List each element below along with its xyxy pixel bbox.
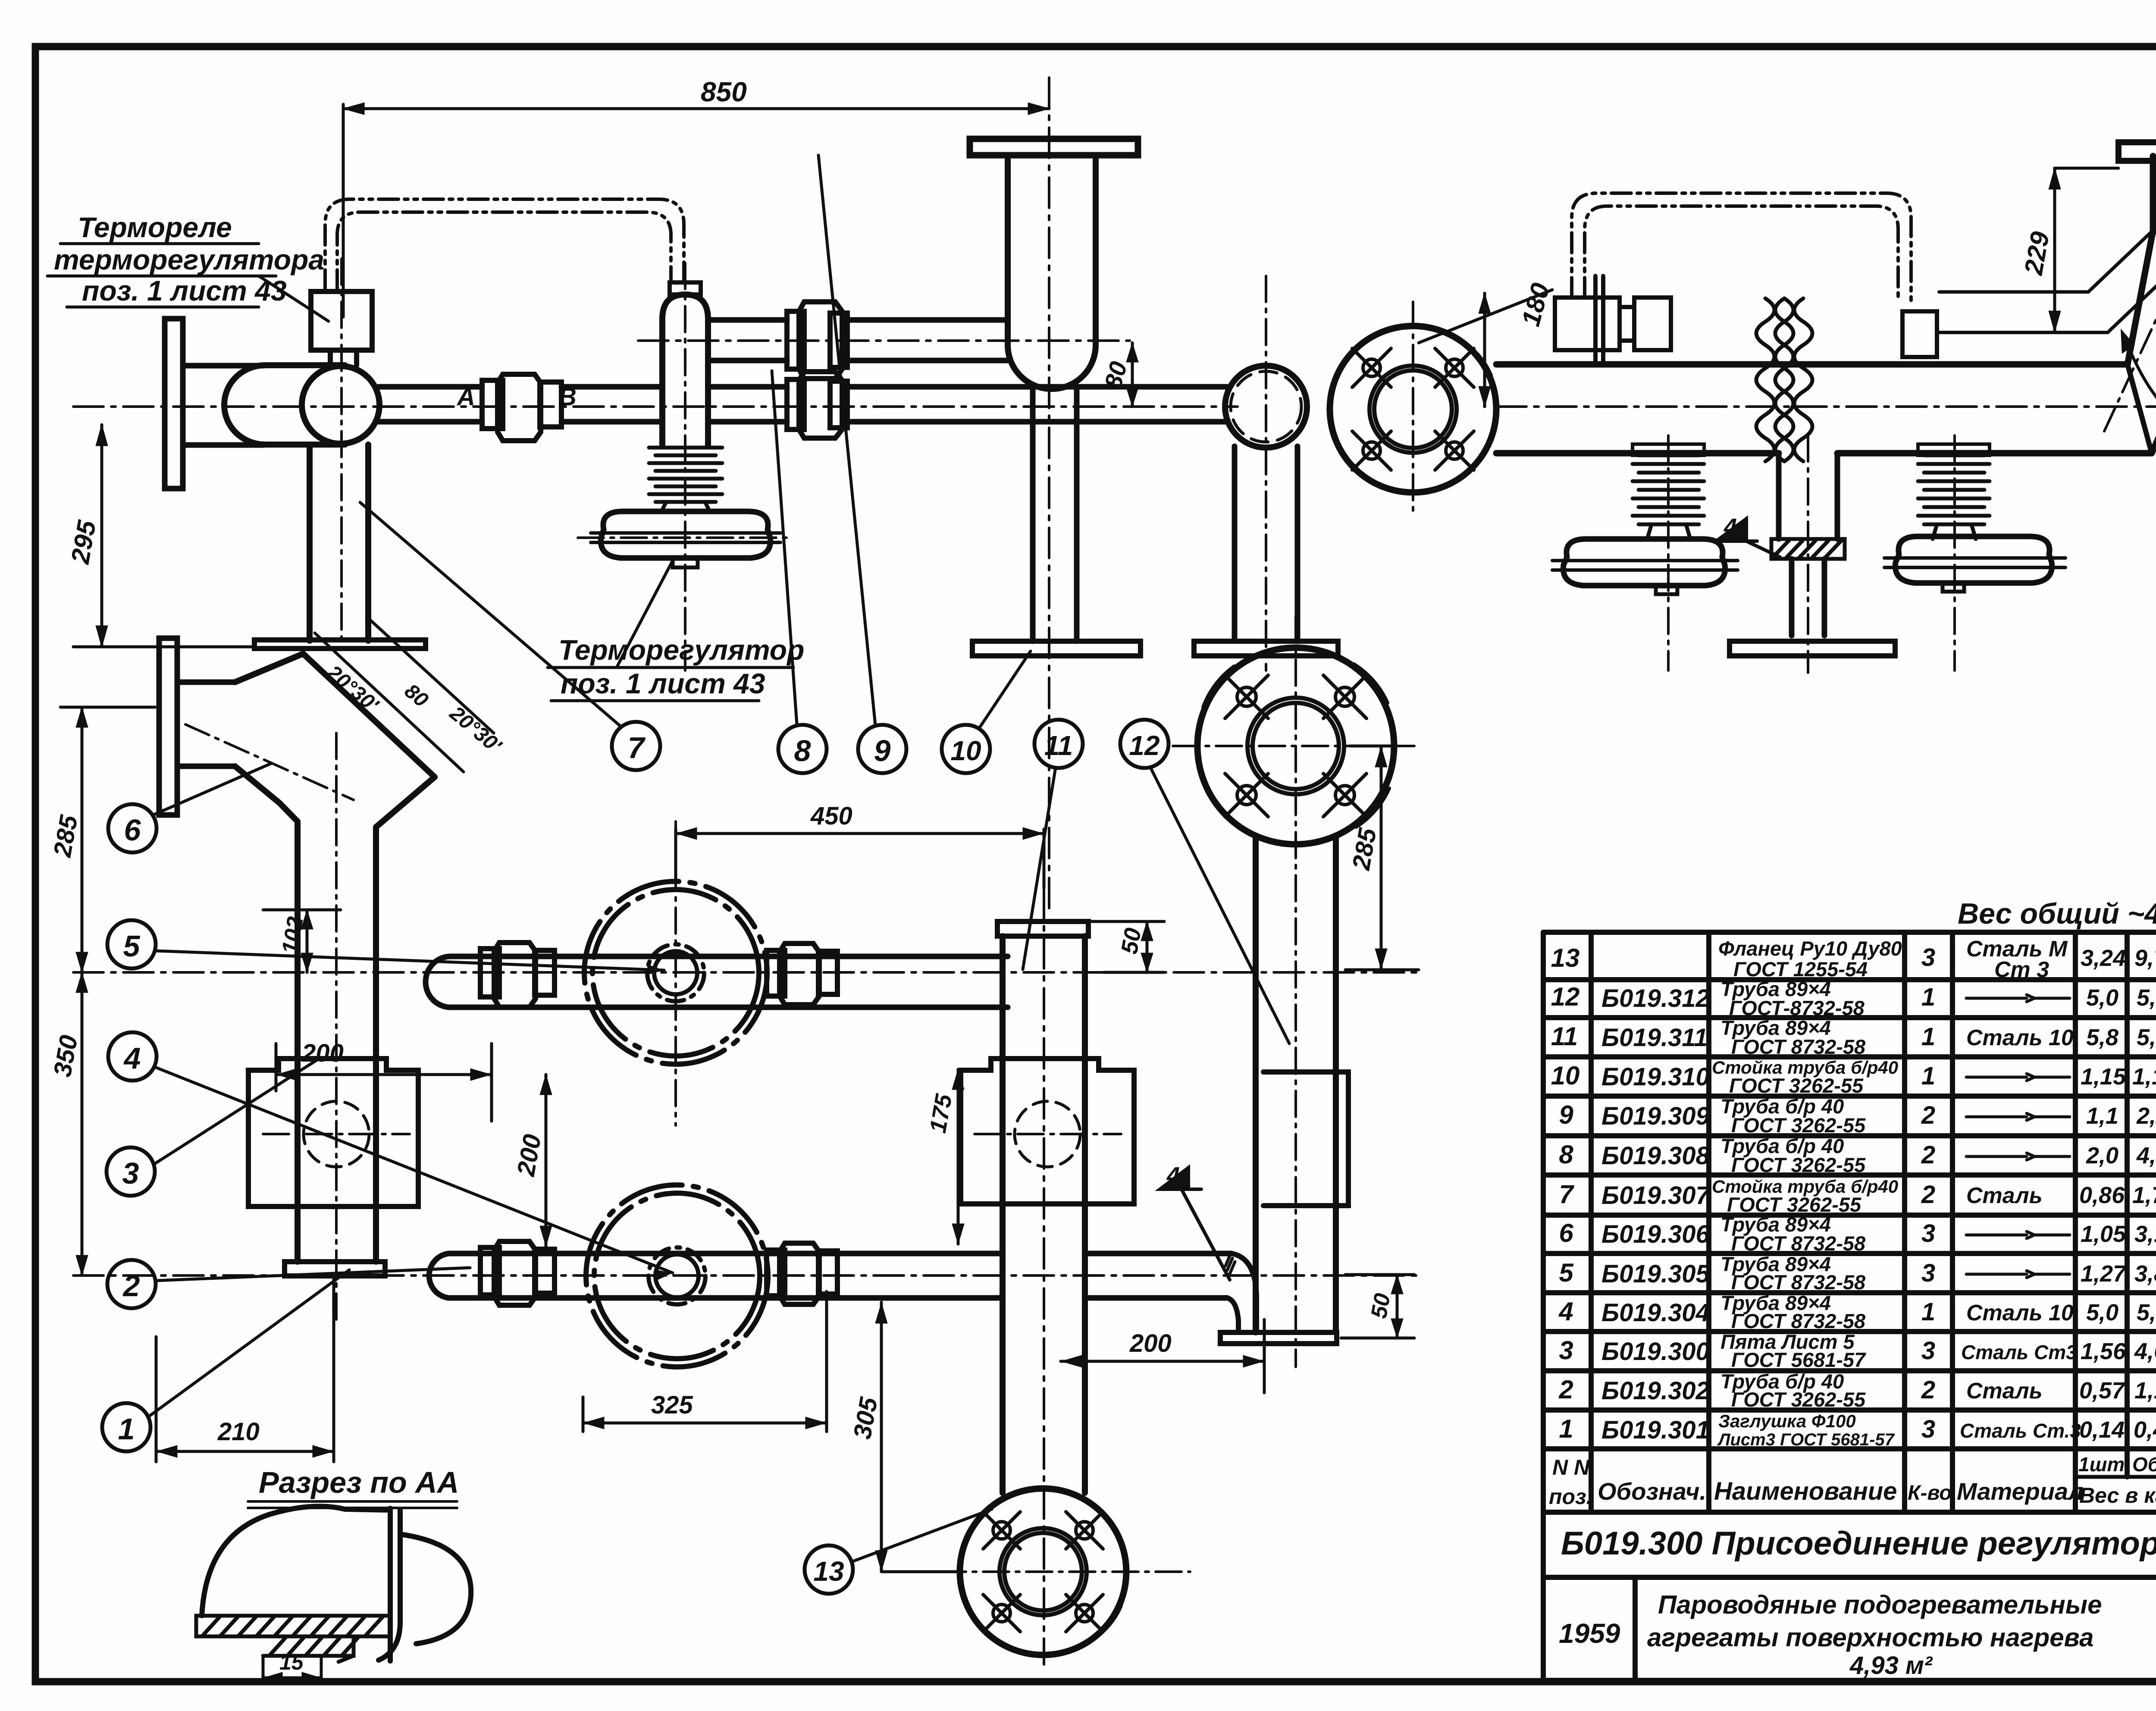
BOM table grid	[1543, 932, 2156, 1680]
label Termoregulator	[558, 634, 804, 699]
union U-A	[482, 374, 561, 441]
svg-text:Б019.308: Б019.308	[1601, 1142, 1710, 1170]
svg-text:Б019.300: Б019.300	[1601, 1338, 1710, 1366]
svg-text:1,56: 1,56	[2081, 1338, 2126, 1364]
svg-text:ГОСТ 8732-58: ГОСТ 8732-58	[1731, 1271, 1866, 1294]
row2 union1	[480, 1241, 555, 1305]
svg-text:ГОСТ 8732-58: ГОСТ 8732-58	[1731, 1310, 1866, 1332]
svg-text:1: 1	[118, 1412, 135, 1446]
right elbow 45	[2128, 156, 2156, 453]
dim 50 row2	[1341, 1275, 1414, 1338]
impulse tube U1	[325, 199, 684, 290]
column1 lower pipe	[1033, 389, 1077, 641]
elbow riser centerline	[1265, 276, 1267, 671]
center drop pipe right	[1779, 453, 1837, 636]
svg-text:ГОСТ 8732-58: ГОСТ 8732-58	[1731, 1232, 1866, 1255]
svg-text:9: 9	[874, 734, 891, 768]
callout 9	[818, 155, 906, 773]
svg-text:1: 1	[1921, 1023, 1935, 1051]
column2 top collar	[997, 921, 1088, 936]
FL2 bolts	[965, 1505, 1121, 1639]
FL3 bolts	[1203, 664, 1389, 827]
svg-text:2: 2	[1558, 1375, 1573, 1404]
svg-text:6: 6	[1559, 1219, 1573, 1247]
svg-text:ГОСТ 3262-55: ГОСТ 3262-55	[1731, 1114, 1866, 1137]
hatched collar	[1771, 539, 1845, 559]
svg-text:210: 210	[217, 1418, 260, 1446]
svg-text:1,27: 1,27	[2081, 1261, 2127, 1287]
svg-text:0,86: 0,86	[2079, 1182, 2125, 1208]
svg-text:N N: N N	[1552, 1455, 1590, 1479]
svg-text:агрегаты поверхностью нагрев: агрегаты поверхностью нагрева	[1647, 1623, 2093, 1652]
svg-text:2: 2	[1921, 1181, 1935, 1209]
FL1 bolt holes	[1335, 341, 1491, 478]
column2 centerline	[1043, 888, 1045, 1664]
svg-text:3: 3	[1921, 1259, 1935, 1287]
thermostat2 bellows	[1633, 444, 1704, 539]
svg-text:Разрез по АА: Разрез по АА	[259, 1466, 459, 1499]
svg-text:ГОСТ 8732-58: ГОСТ 8732-58	[1731, 1035, 1866, 1058]
svg-text:Б019.312: Б019.312	[1601, 984, 1710, 1012]
callout 2	[107, 1260, 470, 1308]
svg-text:6: 6	[124, 813, 141, 847]
svg-text:1: 1	[1921, 1062, 1935, 1090]
svg-text:4: 4	[123, 1041, 141, 1075]
dim 210	[156, 1279, 334, 1462]
svg-text:Материал: Материал	[1957, 1478, 2084, 1505]
dim 175	[925, 1069, 962, 1244]
riser below tee	[310, 445, 368, 641]
svg-text:ГОСТ 3262-55: ГОСТ 3262-55	[1731, 1388, 1866, 1411]
svg-text:10: 10	[950, 735, 981, 766]
callout 12	[1120, 720, 1289, 1044]
relay centerline	[340, 259, 343, 642]
callout 3	[107, 1059, 319, 1196]
svg-text:1,72: 1,72	[2132, 1182, 2156, 1208]
bolted flange FL2 (plan bottom)	[960, 1489, 1126, 1655]
thermostat3 centerline	[1953, 436, 1956, 671]
branch pipe upper	[708, 320, 1008, 360]
column2 walls	[1003, 936, 1085, 1493]
section hatched bar	[196, 1616, 390, 1662]
svg-text:13: 13	[813, 1556, 844, 1587]
svg-text:Б019.306: Б019.306	[1601, 1220, 1710, 1248]
dim 50 row1	[1088, 921, 1164, 972]
weld mark D4 plan	[1160, 1163, 1230, 1280]
plate1 (pata)	[248, 1059, 418, 1206]
column1 top flange	[970, 139, 1138, 155]
section letters A B	[456, 383, 577, 411]
impulse tube U2	[1572, 193, 1911, 302]
row2 centerline	[73, 1274, 1419, 1277]
dim 15	[263, 1650, 321, 1684]
svg-text:Б019.305: Б019.305	[1601, 1260, 1710, 1288]
impulse tube at elbow	[1939, 224, 2156, 332]
svg-text:Термореле: Термореле	[78, 211, 232, 243]
base flange bar (elevation riser)	[254, 640, 426, 649]
pipe tee to union A	[379, 387, 482, 422]
svg-text:Сталь: Сталь	[1966, 1379, 2043, 1404]
title block	[1559, 1590, 2156, 1680]
svg-text:5,0: 5,0	[2086, 985, 2118, 1011]
svg-text:3,24: 3,24	[2081, 945, 2126, 971]
svg-text:Вес в кг.: Вес в кг.	[2079, 1483, 2156, 1507]
dim 200 bottom	[1061, 1319, 1264, 1393]
plan left pipe base flange	[285, 1262, 385, 1276]
main pipe to elbow circle	[846, 387, 1227, 422]
svg-text:5,0: 5,0	[2137, 985, 2156, 1011]
thermostat2 centerline	[1667, 436, 1670, 671]
column1 centerline	[1048, 78, 1050, 914]
svg-text:Б019.307: Б019.307	[1601, 1181, 1711, 1210]
plate2 (pata)	[961, 1059, 1134, 1204]
svg-text:Общ.: Общ.	[2132, 1453, 2156, 1476]
svg-text:5: 5	[123, 929, 141, 963]
svg-text:1,15: 1,15	[2132, 1064, 2156, 1090]
svg-text:9: 9	[1559, 1100, 1573, 1129]
svg-text:325: 325	[651, 1391, 693, 1419]
svg-text:2: 2	[1921, 1141, 1935, 1169]
svg-text:1,15: 1,15	[2081, 1064, 2126, 1090]
FL2 centerline horizontal	[897, 1570, 1190, 1573]
svg-text:Б019.304: Б019.304	[1601, 1299, 1710, 1327]
svg-text:2: 2	[1921, 1101, 1935, 1129]
svg-text:3,15: 3,15	[2134, 1221, 2156, 1247]
svg-text:5,8: 5,8	[2137, 1025, 2156, 1050]
row1 centerline	[73, 971, 1419, 974]
elbow dims 20-30	[315, 617, 506, 772]
thermostat1 body	[662, 295, 708, 445]
svg-text:поз. 1 лист 43: поз. 1 лист 43	[561, 667, 765, 699]
row2 pipe	[429, 1253, 1232, 1298]
svg-text:5,0: 5,0	[2137, 1300, 2156, 1326]
svg-text:Б019.301: Б019.301	[1601, 1416, 1710, 1444]
svg-text:Б019.310: Б019.310	[1601, 1063, 1710, 1091]
thermo relay box	[311, 291, 372, 365]
thermostat2 diaphragm	[1552, 539, 1738, 594]
plan left pipe centerline	[335, 733, 338, 1319]
svg-text:12: 12	[1551, 982, 1580, 1011]
svg-text:Вес общий ~47,22 кг.: Вес общий ~47,22 кг.	[1958, 897, 2156, 930]
plan elbow centerline	[185, 724, 354, 800]
svg-text:200: 200	[301, 1039, 344, 1067]
svg-text:50: 50	[1116, 926, 1147, 956]
svg-text:Фланец Ру10 Ду80: Фланец Ру10 Ду80	[1718, 937, 1902, 960]
svg-text:1: 1	[1921, 1298, 1935, 1326]
svg-text:Сталь Ст.3: Сталь Ст.3	[1960, 1420, 2081, 1442]
weld mark D4 right	[1716, 514, 1780, 557]
svg-text:Ст 3: Ст 3	[1994, 957, 2049, 982]
callout 10	[942, 651, 1031, 773]
regulator1 centerline	[674, 821, 677, 1125]
svg-text:1,1: 1,1	[2086, 1103, 2118, 1129]
FL3 centerlines	[1173, 617, 1419, 1367]
thermostat1 centerline	[578, 263, 793, 671]
column1 outer walls	[1008, 155, 1096, 389]
union U-C lower	[787, 372, 847, 438]
union U-B upper	[787, 302, 847, 379]
svg-text:3: 3	[1921, 1415, 1935, 1443]
top right flange	[2118, 142, 2156, 161]
material ditto dashes	[1966, 995, 2070, 1278]
svg-text:Пароводяные подогревательные: Пароводяные подогревательные	[1658, 1590, 2102, 1619]
pipe clamp right	[1555, 276, 1671, 364]
plan right plate	[1263, 1072, 1348, 1206]
total weight note	[1958, 897, 2156, 930]
svg-text:1,05: 1,05	[2081, 1221, 2126, 1247]
svg-text:1,14: 1,14	[2134, 1378, 2156, 1404]
svg-text:Наименование: Наименование	[1714, 1477, 1897, 1505]
svg-text:Сталь: Сталь	[1966, 1183, 2043, 1208]
regulator1 circle	[584, 881, 767, 1064]
svg-text:4,68: 4,68	[2134, 1338, 2156, 1364]
callout 8	[772, 371, 827, 773]
svg-text:2,2: 2,2	[2136, 1103, 2156, 1129]
svg-text:Лист3 ГОСТ 5681-57: Лист3 ГОСТ 5681-57	[1717, 1430, 1895, 1449]
svg-text:Сталь Ст3: Сталь Ст3	[1961, 1341, 2077, 1363]
svg-text:8: 8	[1559, 1140, 1573, 1169]
row2 union2	[767, 1243, 837, 1304]
svg-text:К-во: К-во	[1908, 1482, 1952, 1504]
svg-text:1959: 1959	[1559, 1618, 1620, 1649]
assembly title row	[1561, 1525, 2156, 1562]
svg-text:Б019.311: Б019.311	[1601, 1024, 1708, 1052]
svg-text:Б019.309: Б019.309	[1601, 1102, 1710, 1130]
plan right bottom flange	[1220, 1332, 1337, 1344]
svg-text:1: 1	[1921, 983, 1935, 1011]
svg-text:2: 2	[1921, 1376, 1935, 1404]
svg-text:15: 15	[279, 1650, 304, 1674]
riser below elbow circle	[1235, 446, 1297, 641]
svg-text:Б019.300 Присоединение регул: Б019.300 Присоединение регуляторов	[1561, 1525, 2156, 1562]
callout 4	[108, 1032, 673, 1280]
svg-text:Б019.302: Б019.302	[1601, 1377, 1710, 1405]
bolted flange FL3 (plan right)	[1197, 648, 1394, 844]
callout 6	[108, 763, 272, 852]
dim 325	[583, 1291, 827, 1432]
dim 229	[2019, 168, 2118, 332]
dim 350 left	[48, 972, 86, 1275]
row2 bend end	[1225, 1253, 1257, 1331]
svg-text:поз. 1 лист 43: поз. 1 лист 43	[82, 275, 287, 307]
thermostat1 bellows	[649, 448, 722, 511]
svg-text:10: 10	[1551, 1061, 1580, 1090]
svg-text:ГОСТ 3262-55: ГОСТ 3262-55	[1731, 1153, 1866, 1176]
svg-text:13: 13	[1551, 943, 1580, 972]
thermostat1 cap	[670, 282, 701, 295]
plan flange left	[159, 638, 235, 815]
svg-text:3: 3	[1921, 943, 1935, 971]
svg-text:0,42: 0,42	[2134, 1417, 2156, 1443]
plan left pipe	[298, 821, 376, 1262]
svg-text:4: 4	[1558, 1297, 1573, 1326]
svg-text:8: 8	[794, 734, 811, 768]
dim 450	[676, 802, 1044, 888]
svg-text:5,8: 5,8	[2086, 1025, 2118, 1050]
svg-text:5: 5	[1559, 1258, 1574, 1287]
elbow circle (end view)	[1225, 366, 1307, 448]
plan right column walls	[1256, 838, 1336, 1332]
drop pipe centerline	[1807, 436, 1809, 673]
drop pipe flange	[1730, 641, 1895, 656]
dim 850	[343, 76, 1049, 317]
svg-text:11: 11	[1044, 730, 1073, 761]
thermostat1 diaphragm	[591, 511, 780, 567]
svg-text:Терморегулятор: Терморегулятор	[558, 634, 804, 666]
svg-text:Сталь 10: Сталь 10	[1966, 1025, 2074, 1050]
section view blob	[202, 1506, 471, 1661]
column1 bottom flange	[972, 641, 1141, 656]
row1 pipe	[426, 956, 1008, 1007]
svg-text:11: 11	[1551, 1022, 1578, 1051]
svg-text:3: 3	[122, 1156, 139, 1190]
svg-text:4: 4	[1166, 1163, 1180, 1188]
dim 80 (riser offset)	[1099, 343, 1137, 407]
flange F-left (elevation)	[165, 319, 264, 489]
svg-text:3: 3	[1921, 1337, 1935, 1365]
clamp2	[1902, 311, 1937, 357]
svg-text:850: 850	[701, 76, 747, 107]
svg-text:2,0: 2,0	[2086, 1143, 2118, 1169]
svg-text:Обознач.: Обознач.	[1598, 1478, 1706, 1505]
svg-text:1: 1	[1559, 1414, 1573, 1443]
svg-text:0,57: 0,57	[2079, 1378, 2126, 1404]
BOM header	[1549, 1453, 2156, 1512]
dim 285 plan	[1345, 746, 1419, 970]
tee valve body	[224, 365, 379, 445]
bolted flange FL1 (elevation)	[1330, 326, 1496, 492]
svg-text:5,0: 5,0	[2086, 1300, 2118, 1326]
BOM rows text	[1551, 937, 2156, 1449]
svg-text:450: 450	[810, 802, 852, 830]
main pipe centerline	[73, 405, 2156, 408]
svg-text:поз.: поз.	[1549, 1485, 1592, 1509]
svg-text:50: 50	[1366, 1291, 1395, 1320]
svg-text:12: 12	[1129, 730, 1159, 761]
elbow riser bottom flange	[1194, 641, 1338, 656]
svg-text:0,14: 0,14	[2079, 1417, 2125, 1443]
dim 180	[1419, 280, 1555, 407]
regulator2 hub	[649, 1247, 705, 1304]
svg-text:7: 7	[1559, 1180, 1574, 1209]
plan elbow 45	[235, 654, 435, 827]
svg-text:7: 7	[628, 731, 646, 765]
FL1 centerline	[1412, 302, 1414, 517]
svg-text:3: 3	[1559, 1336, 1573, 1365]
pipe union to thermostat1	[561, 387, 787, 422]
main pipe wide right	[1496, 364, 2152, 453]
svg-text:2: 2	[122, 1269, 140, 1303]
label Termorele	[54, 211, 324, 307]
callout 1	[102, 1270, 349, 1451]
dim 305	[848, 1302, 962, 1572]
svg-text:Заглушка Ф100: Заглушка Ф100	[1718, 1411, 1856, 1431]
row1 union1	[480, 943, 555, 1007]
svg-text:200: 200	[1129, 1329, 1172, 1357]
svg-text:4,0: 4,0	[2136, 1143, 2156, 1169]
dim 102	[263, 910, 341, 972]
callout 7	[360, 502, 660, 770]
view letter P	[2122, 333, 2156, 448]
svg-text:1шт: 1шт	[2078, 1453, 2125, 1476]
regulator2 circle	[586, 1185, 768, 1367]
svg-text:Сталь 10: Сталь 10	[1966, 1300, 2074, 1326]
svg-text:терморегулятора: терморегулятора	[54, 244, 324, 276]
section title	[259, 1466, 459, 1499]
dim 295	[66, 425, 254, 647]
dim 200 vertical	[512, 1075, 550, 1246]
callout 13	[805, 1509, 992, 1594]
dim 285 left	[48, 707, 155, 972]
svg-text:9,72: 9,72	[2134, 945, 2156, 971]
row1 union2	[767, 943, 837, 1005]
svg-text:3: 3	[1921, 1219, 1935, 1247]
svg-text:3,81: 3,81	[2134, 1261, 2156, 1287]
regulator1 hub	[647, 944, 704, 1001]
svg-text:А: А	[456, 383, 475, 411]
callout 11	[1023, 720, 1083, 969]
callout 5	[107, 920, 664, 975]
branch centerline	[638, 339, 1130, 342]
svg-text:4,93 м²: 4,93 м²	[1849, 1651, 1933, 1680]
elbow centerline	[2104, 190, 2156, 431]
svg-text:ГОСТ 3262-55: ГОСТ 3262-55	[1729, 1074, 1864, 1097]
svg-text:4: 4	[1724, 514, 1737, 540]
dim 200 plate1	[276, 1039, 492, 1121]
thermostat3 bellows	[1918, 444, 1990, 539]
svg-text:ГОСТ 5681-57: ГОСТ 5681-57	[1731, 1348, 1866, 1371]
twist symbols	[1756, 298, 1812, 461]
thermostat3 diaphragm	[1884, 536, 2065, 592]
